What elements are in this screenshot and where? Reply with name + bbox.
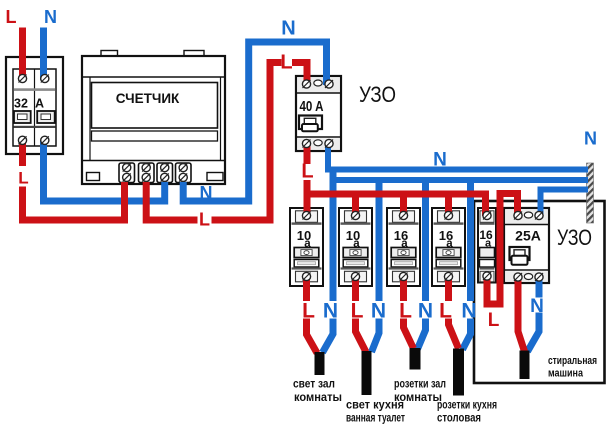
cable circuit 4 <box>453 349 464 396</box>
wire SF5 out to RCD U2 L in <box>487 194 518 305</box>
svg-text:УЗО: УЗО <box>359 82 396 107</box>
svg-text:A: A <box>35 97 44 111</box>
enclosure box around washing-machine group <box>474 201 605 383</box>
wire RCD U1 L out to breaker SF1 <box>304 180 311 216</box>
wire RCD U1 N out to N bus line 1 <box>328 143 588 170</box>
svg-text:L: L <box>280 52 292 74</box>
wire meter T2 to L link left part <box>146 182 197 220</box>
N terminal bus strip <box>587 163 594 223</box>
wire N bus line 2 <box>333 177 588 183</box>
svg-text:a: a <box>353 238 360 250</box>
svg-text:УЗО: УЗО <box>557 225 592 250</box>
breaker SF3 16a body <box>387 208 420 286</box>
wire L out circuit 3 <box>400 277 407 302</box>
meter terminal block 4 <box>176 163 192 183</box>
svg-text:N: N <box>584 129 597 149</box>
wire L out circuit 1 <box>303 277 310 302</box>
wire L feed SF3 <box>400 194 407 216</box>
svg-text:N: N <box>281 18 295 40</box>
meter body <box>82 51 225 185</box>
breaker SF5 16a body <box>478 208 496 283</box>
svg-text:СЧЕТЧИК: СЧЕТЧИК <box>116 91 180 106</box>
RCD U2 25A body <box>504 208 549 283</box>
screws SF4 <box>444 211 452 219</box>
wire RCD U2 L out <box>518 277 525 352</box>
screws breaker QF1 <box>18 74 26 82</box>
wire RCD U1 L out upper <box>304 143 311 164</box>
wire L supply top-left <box>19 28 26 81</box>
wire L feed SF4 <box>445 194 452 216</box>
wire N drop circuit 1 <box>330 167 337 301</box>
wire N drop circuit 2 <box>376 180 383 301</box>
wire RCD U2 N out <box>536 277 543 298</box>
wire L feed SF2 <box>352 194 359 216</box>
wire N bus line 3 to RCD U2 N in <box>541 190 589 217</box>
svg-text:N: N <box>44 7 57 27</box>
wire breaker32 N out to meter T3 <box>44 140 165 201</box>
wire breaker32 L out upper <box>19 140 26 166</box>
svg-text:L: L <box>439 300 452 323</box>
svg-text:стиральная: стиральная <box>548 355 597 367</box>
wire top L into RCD U1 <box>292 63 307 86</box>
svg-text:комнаты: комнаты <box>394 392 442 404</box>
screws SF5 <box>483 211 491 219</box>
svg-text:свет зал: свет зал <box>293 379 335 391</box>
svg-text:L: L <box>302 300 315 323</box>
svg-text:L: L <box>18 169 28 188</box>
svg-text:a: a <box>401 238 408 250</box>
screws RCD U1 <box>302 80 310 88</box>
screws SF3 <box>399 211 407 219</box>
wire L link right part up to top <box>212 63 282 221</box>
svg-text:a: a <box>485 238 492 250</box>
wire L out circuit 4 <box>445 277 452 302</box>
breaker SF2 10a body <box>339 208 372 286</box>
svg-text:комнаты: комнаты <box>294 392 342 404</box>
meter terminal block 3 <box>157 163 173 183</box>
svg-text:L: L <box>301 161 313 183</box>
svg-text:L: L <box>399 300 412 323</box>
svg-text:машина: машина <box>548 368 584 380</box>
wire L out circuit 2 <box>352 277 359 302</box>
svg-text:N: N <box>461 300 476 323</box>
RCD U1 40A body <box>296 76 341 151</box>
screws RCD U2 <box>514 211 522 219</box>
svg-text:ванная туалет: ванная туалет <box>346 413 405 425</box>
breaker QF1 32A body <box>6 57 63 154</box>
svg-text:N: N <box>323 300 338 323</box>
svg-text:25A: 25A <box>515 228 541 244</box>
wire breaker32 L out to meter T1 <box>23 182 125 220</box>
cable circuit 1 <box>315 352 325 375</box>
svg-text:L: L <box>351 300 364 323</box>
breaker SF4 16a body <box>432 208 465 286</box>
svg-text:столовая: столовая <box>437 413 481 425</box>
svg-text:a: a <box>446 238 453 250</box>
svg-text:a: a <box>304 238 311 250</box>
cable washing machine <box>520 351 530 380</box>
svg-text:32: 32 <box>14 97 28 111</box>
wire meter T4 to RCD U1 N in <box>183 42 326 201</box>
svg-text:N: N <box>418 300 433 323</box>
wire N supply top-left <box>40 28 47 81</box>
cable circuit 2 <box>362 351 372 395</box>
wire N drop circuit 3 <box>422 180 429 301</box>
svg-text:N: N <box>371 300 386 323</box>
screws SF2 <box>351 211 359 219</box>
breaker SF1 10a body <box>290 208 323 286</box>
meter terminal block 2 <box>139 163 155 183</box>
svg-text:L: L <box>199 210 210 230</box>
wire L bus <box>307 194 486 216</box>
svg-text:розетки кухня: розетки кухня <box>437 400 497 412</box>
svg-text:N: N <box>530 296 544 317</box>
screws SF1 <box>302 211 310 219</box>
wire N drop circuit 4 <box>467 180 474 301</box>
svg-text:N: N <box>200 183 213 203</box>
svg-text:розетки зал: розетки зал <box>394 379 446 391</box>
cable circuit 3 <box>410 348 421 370</box>
svg-text:N: N <box>433 150 447 171</box>
meter terminal block 1 <box>119 163 135 183</box>
svg-text:L: L <box>488 310 500 331</box>
svg-text:40 A: 40 A <box>300 98 324 115</box>
svg-text:L: L <box>6 7 17 27</box>
